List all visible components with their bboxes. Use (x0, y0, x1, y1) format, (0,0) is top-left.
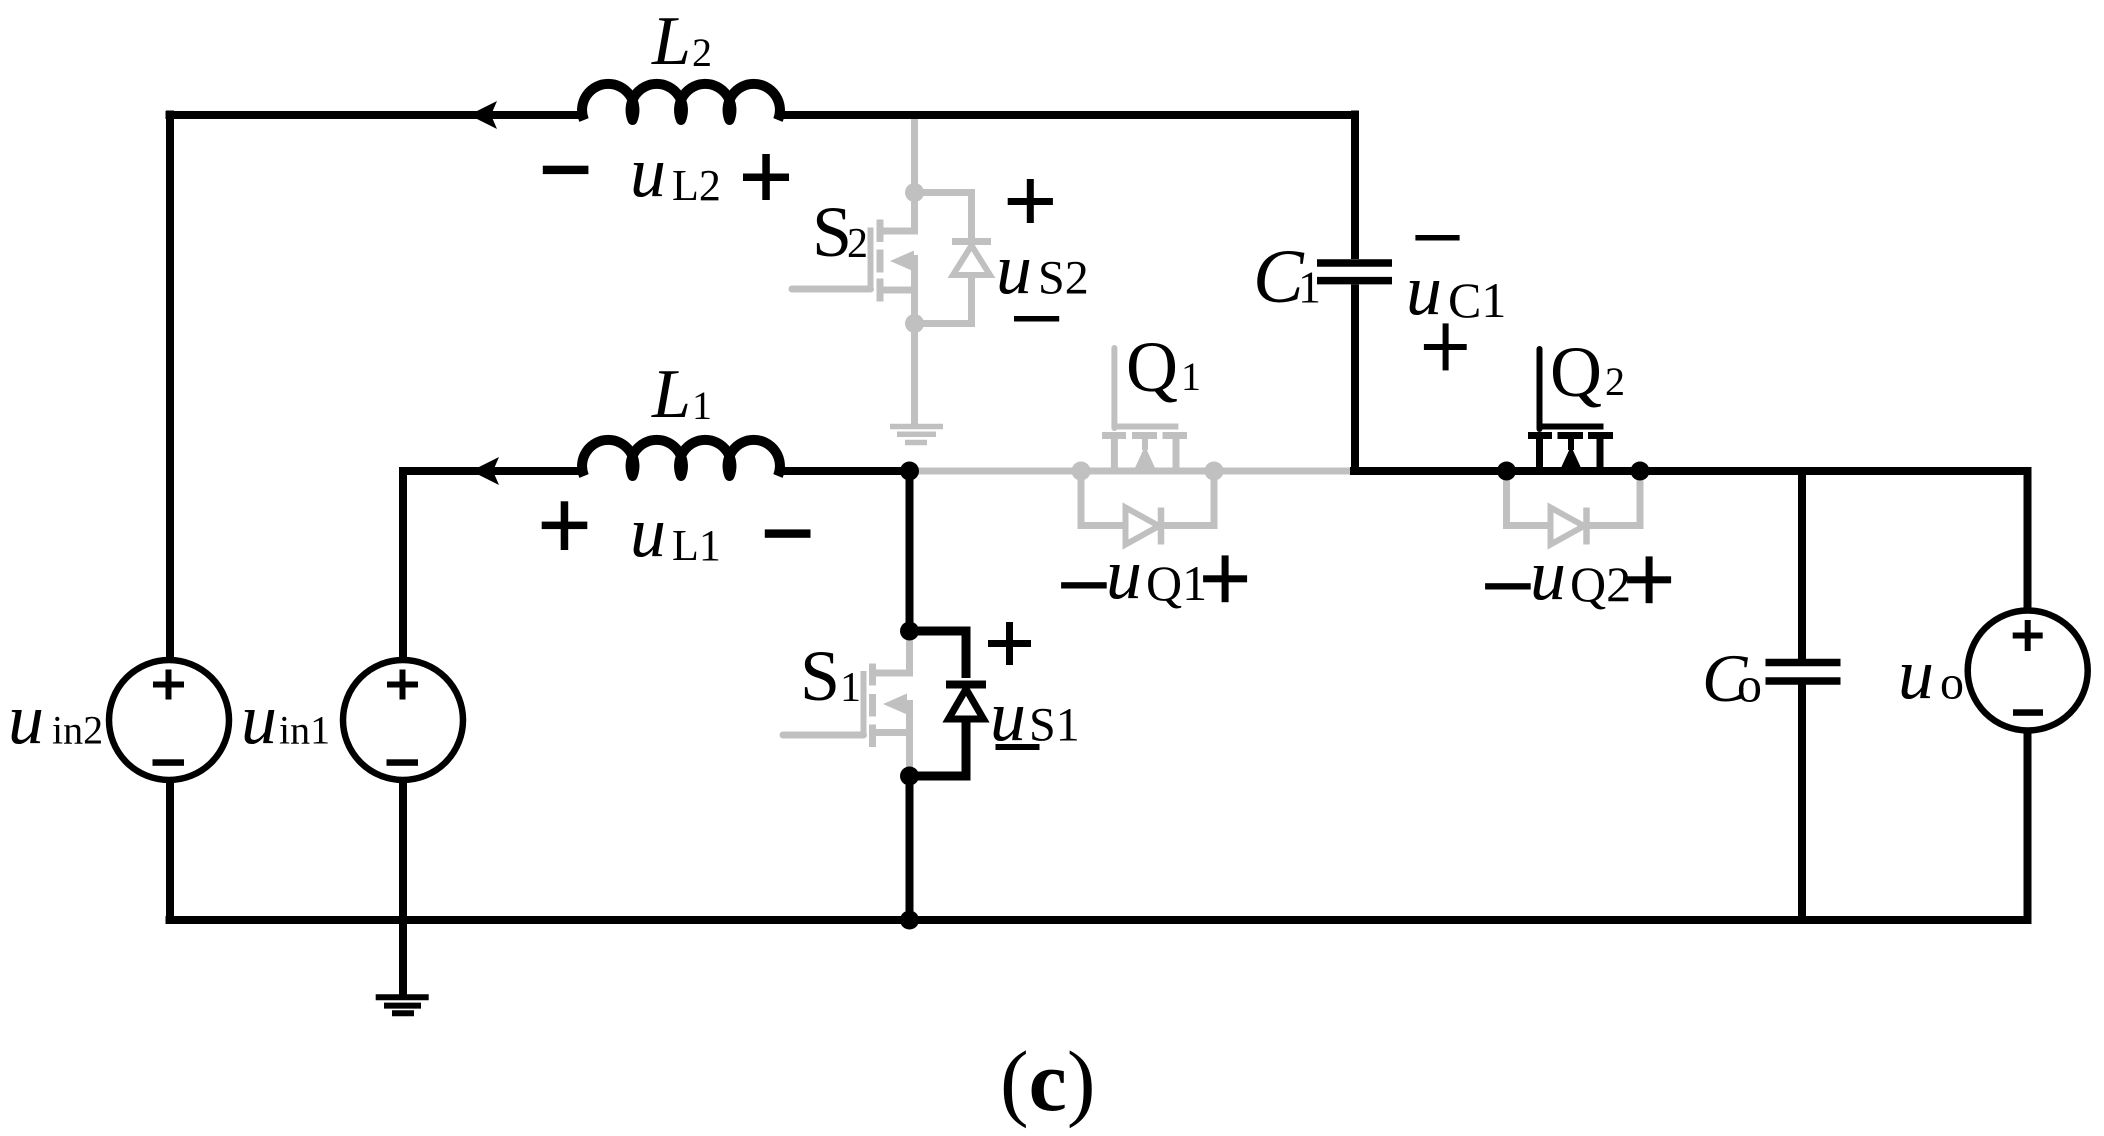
svg-text:u: u (1530, 535, 1566, 615)
node: Q2 source (1631, 462, 1650, 481)
svg-text:Q: Q (1126, 327, 1178, 407)
inductor L1 (582, 440, 780, 476)
wire: left vertical (uin2 branch) (166, 111, 174, 659)
voltage source uin2 (109, 660, 229, 780)
svg-text:in2: in2 (52, 708, 103, 753)
label uC1: minus (1415, 235, 1459, 241)
inductor L2 (582, 84, 780, 120)
svg-text:1: 1 (692, 383, 712, 428)
wire: uo branch vertical (2024, 467, 2032, 610)
svg-text:in1: in1 (279, 708, 330, 753)
transistor S1 (783, 640, 910, 770)
diode (Q1 body diode, gray) (1081, 471, 1214, 545)
diode (Q2 body diode, gray) (1507, 471, 1641, 545)
svg-text:S2: S2 (1038, 252, 1089, 305)
node: junction S1 top rail (900, 462, 919, 481)
wire: S2 drain lead (880, 193, 915, 232)
label uL2 row: minus (543, 166, 589, 174)
capacitor Co (1766, 471, 1841, 920)
svg-text:Q: Q (1550, 332, 1602, 412)
transistor S2 (792, 112, 991, 426)
label uL2 row: plus (743, 154, 789, 200)
svg-text:1: 1 (1181, 354, 1201, 399)
svg-text:L1: L1 (672, 521, 721, 570)
svg-text:u: u (1106, 534, 1142, 614)
svg-text:o: o (1737, 657, 1762, 713)
svg-text:u: u (996, 229, 1032, 309)
transistor Q2 (1497, 349, 1650, 481)
label uQ1: plus (1203, 555, 1247, 602)
label uL1 row: plus (542, 501, 588, 550)
node: Q1 drain (1072, 462, 1091, 481)
transistor Q1 (1072, 348, 1224, 481)
label uL1 row: minus (765, 529, 811, 537)
svg-text:1: 1 (840, 665, 861, 711)
voltage source uo (1968, 611, 2088, 731)
ground (S2 source, gray) (890, 427, 943, 443)
wire: uin1 vertical branch (399, 467, 407, 659)
capacitor C1 (1317, 111, 1392, 472)
svg-text:2: 2 (1605, 359, 1625, 404)
wire: S1 drain vertical (906, 471, 914, 631)
svg-text:u: u (241, 679, 277, 759)
node: S2 source (905, 314, 924, 333)
svg-text:(c): (c) (1000, 1033, 1095, 1129)
svg-text:u: u (8, 679, 44, 759)
svg-text:Q2: Q2 (1570, 556, 1631, 612)
svg-text:u: u (1406, 250, 1442, 330)
svg-text:L: L (651, 3, 691, 80)
wire: S2 source to ground (911, 324, 918, 426)
label uC1: plus (1424, 323, 1467, 370)
diode: S2 body diode (915, 193, 972, 239)
wire: mid bus black right segment (1350, 467, 2028, 475)
svg-text:Q1: Q1 (1146, 555, 1207, 611)
label uS1: minus (996, 744, 1040, 750)
node: Q1 source (1205, 462, 1224, 481)
label uQ1: minus (1061, 582, 1107, 588)
svg-text:1: 1 (1298, 262, 1321, 313)
svg-text:L2: L2 (672, 161, 721, 210)
current arrow on L1 wire (471, 457, 499, 485)
label uQ2: minus (1485, 583, 1531, 589)
node: junction S1 bottom bus (900, 911, 919, 930)
current arrow on L2 wire (469, 101, 497, 129)
ground (uin1, black) (376, 997, 429, 1013)
label uS2: minus (1014, 316, 1059, 322)
node: Q2 drain (1497, 462, 1516, 481)
voltage source uin1 (343, 660, 463, 780)
svg-text:2: 2 (847, 221, 868, 267)
svg-text:u: u (1898, 634, 1934, 714)
diode (S1 body diode, black) (910, 631, 987, 776)
svg-text:u: u (630, 492, 666, 572)
wire: S1 source to bottom bus (906, 776, 914, 920)
wire: top bus from left corner to C1 corner (166, 111, 1356, 119)
node: S2 drain (905, 183, 924, 202)
svg-text:u: u (630, 132, 666, 212)
wire: gray mid bus (Q1 rail from S1 node to C1 node) (909, 468, 1355, 475)
svg-text:o: o (1940, 657, 1964, 710)
svg-text:S: S (800, 636, 840, 716)
svg-text:C1: C1 (1448, 272, 1506, 328)
svg-text:2: 2 (692, 30, 712, 75)
wire: S2 drain stub from top bus (911, 112, 918, 193)
wire: mid bus black left segment with L1 (403, 467, 910, 475)
label uS1: plus (988, 622, 1031, 665)
svg-text:S1: S1 (1029, 699, 1080, 752)
svg-text:L: L (651, 356, 691, 433)
wire: bottom bus (166, 916, 2028, 924)
label uQ2: plus (1627, 556, 1671, 603)
node: S1 drain (900, 622, 919, 641)
node: S1 source (900, 767, 919, 786)
label uS2: plus (1008, 179, 1053, 223)
